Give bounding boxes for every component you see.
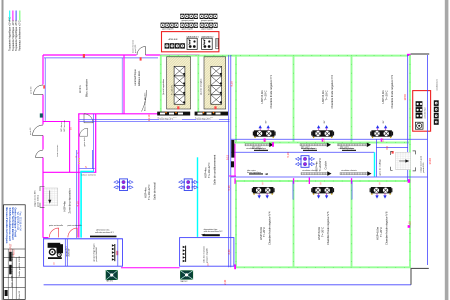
svg-text:Couloir: Couloir — [324, 161, 328, 169]
svg-text:T=-20°C: T=-20°C — [385, 90, 389, 100]
svg-text:HSP=6,0m: HSP=6,0m — [375, 226, 379, 240]
right ramp arrow — [399, 160, 409, 162]
svg-text:Evac eaux glacées: Evac eaux glacées — [144, 92, 146, 111]
svg-text:condenseurs: condenseurs — [436, 79, 438, 90]
room text N3 — [381, 74, 394, 108]
svg-text:porte sectionnelle: porte sectionnelle — [68, 224, 82, 227]
big wall magenta x78.8 — [78, 114, 80, 238]
left wall magenta — [42, 55, 44, 238]
pipe line y177 — [231, 176, 428, 178]
svg-text:Bloc sanitaire: Bloc sanitaire — [85, 79, 89, 97]
quai room A racks — [174, 66, 185, 104]
evaporators bottom row — [252, 187, 275, 199]
flow arrows row1 — [245, 143, 371, 151]
wall x124 magenta — [123, 55, 125, 114]
svg-text:2,40: 2,40 — [227, 249, 231, 255]
flow arrows row2 — [301, 169, 372, 176]
sanitary door arc — [84, 114, 93, 123]
teal pump 2 — [180, 271, 192, 283]
svg-text:porte 90: porte 90 — [29, 127, 32, 135]
bottom boundary blue — [44, 284, 411, 286]
atelier red box — [162, 32, 219, 52]
top wall magenta — [43, 54, 200, 56]
inner partition right cell — [117, 239, 119, 266]
svg-text:S: S — [320, 182, 322, 186]
legend line green — [19, 11, 21, 21]
svg-text:positifs 2x40kW: positifs 2x40kW — [95, 247, 98, 261]
right outer icon column — [434, 100, 439, 124]
quai room B racks — [211, 66, 222, 104]
red tick door1 — [43, 85, 45, 88]
svg-text:Chambre froide négative N°5: Chambre froide négative N°5 — [326, 211, 330, 245]
svg-text:3640: 3640 — [428, 158, 432, 165]
svg-text:rampe acces quai: rampe acces quai — [419, 156, 422, 173]
svg-text:Verifie par: Verifie par — [18, 267, 21, 277]
svg-text:HSP=6,0m: HSP=6,0m — [260, 90, 264, 104]
title block black mark — [5, 290, 8, 296]
icon strip row2 block3 — [200, 23, 218, 31]
legend line blue — [15, 11, 17, 21]
svg-text:Chambre froide négative N°3: Chambre froide négative N°3 — [390, 74, 394, 108]
equip bar A — [157, 112, 190, 120]
blue wall x229.5 — [229, 55, 231, 267]
svg-text:issue secours: issue secours — [57, 145, 59, 157]
svg-text:rampe acces 10%: rampe acces 10% — [34, 190, 37, 207]
corridor labels y150 — [252, 145, 356, 151]
svg-text:T=-20°C: T=-20°C — [325, 90, 329, 100]
svg-text:Quai d’expédition: Quai d’expédition — [162, 78, 165, 95]
cyan drop duct — [80, 172, 82, 237]
svg-text:Panneaux isothermes +2°C: Panneaux isothermes +2°C — [19, 20, 22, 51]
title block divider — [4, 248, 26, 250]
quai room A red mark — [177, 106, 179, 109]
door bars on x230 — [231, 140, 234, 158]
cyan vert x374.5 — [374, 152, 376, 176]
svg-text:T=-20°C: T=-20°C — [262, 227, 266, 237]
svg-text:TAR N°1: TAR N°1 — [106, 280, 113, 283]
svg-text:9,20: 9,20 — [229, 81, 233, 87]
wall x69.5 magenta — [69, 122, 71, 173]
red door arc 2 — [68, 228, 77, 237]
magenta tick N3 top — [381, 138, 382, 141]
svg-text:porte sectionnelle: porte sectionnelle — [49, 224, 63, 227]
left page margin bar — [2, 0, 4, 300]
wall x93.6 blue — [93, 114, 95, 172]
red tick topwall2 — [140, 57, 142, 60]
right ramp bracket — [391, 151, 416, 171]
icon strip row1 block2 — [200, 14, 218, 22]
magenta tick N2 top — [322, 138, 323, 141]
red tick right — [392, 151, 394, 154]
svg-text:quai 2,50: quai 2,50 — [135, 44, 137, 53]
svg-text:groupes positifs: groupes positifs — [182, 19, 195, 22]
svg-text:HSP=6,0m: HSP=6,0m — [321, 90, 325, 104]
cold room walls bottom — [235, 181, 411, 267]
machine room top wall — [43, 238, 123, 239]
svg-text:grpes negatifs: grpes negatifs — [162, 28, 173, 31]
top wall green ticks — [160, 55, 408, 57]
svg-text:liaison frigo -25°C: liaison frigo -25°C — [197, 118, 212, 120]
pipe labels — [159, 118, 182, 120]
svg-text:LAVEUSE N°2: LAVEUSE N°2 — [201, 35, 213, 38]
fan coil 1 — [114, 179, 133, 191]
svg-text:salle des machines N°2: salle des machines N°2 — [204, 231, 223, 233]
red tick topwall — [83, 54, 85, 58]
green wall x198.3 — [197, 55, 199, 113]
svg-text:Zone de préparation: Zone de préparation — [67, 188, 71, 214]
top door arc outward — [137, 47, 146, 56]
svg-text:T=+2/+4°C: T=+2/+4°C — [208, 84, 210, 95]
title block frame — [4, 205, 26, 300]
right blue wall x427.5 — [427, 55, 429, 265]
ramp arrow — [49, 191, 51, 204]
compressor unit — [48, 243, 71, 259]
teal pump 1 — [106, 270, 118, 282]
svg-text:Folio 03: Folio 03 — [19, 290, 21, 299]
svg-text:HSP=6,0m: HSP=6,0m — [317, 226, 321, 240]
heater bar left room — [112, 244, 118, 261]
svg-text:T=-20°C: T=-20°C — [321, 227, 325, 237]
icon strip row1 block1 — [180, 14, 198, 22]
corridor pipe y152 — [231, 151, 374, 153]
svg-text:T=+10/12°C: T=+10/12°C — [319, 158, 322, 172]
svg-text:gaine tech: gaine tech — [83, 137, 86, 146]
svg-text:S: S — [207, 262, 209, 266]
title block black bar 1 — [9, 252, 11, 261]
door arc left 2 — [33, 125, 44, 136]
equip bar B — [195, 112, 228, 120]
magenta stub — [43, 237, 49, 239]
fan coil 2 — [179, 179, 198, 191]
svg-text:5,10: 5,10 — [286, 152, 290, 158]
legend line cyan — [9, 11, 11, 21]
machine room 2 box — [180, 238, 234, 267]
fan coil corridor vertical — [296, 156, 315, 168]
svg-text:FRIGO: FRIGO — [14, 249, 16, 256]
svg-text:S: S — [53, 262, 55, 266]
big wall blue x76.7 — [76, 150, 78, 238]
svg-text:centrale froid: centrale froid — [424, 108, 427, 119]
svg-text:grpes negatifs: grpes negatifs — [182, 28, 193, 31]
pipe lines y119 y121 — [80, 119, 230, 121]
room text N5 — [317, 211, 330, 245]
svg-text:Chambre froide négative N°1: Chambre froide négative N°1 — [269, 74, 273, 108]
blue pipes into rooms — [293, 181, 352, 200]
svg-text:Quai de réception: Quai de réception — [200, 78, 203, 95]
machine room box — [44, 239, 123, 266]
title block row cells — [7, 249, 9, 299]
svg-text:T=+2/+4°C: T=+2/+4°C — [172, 84, 174, 95]
top wall magenta cap right — [407, 54, 411, 56]
dice icon 2 — [202, 38, 213, 49]
room text N6 — [375, 211, 388, 245]
svg-text:gaine de soufflage: gaine de soufflage — [379, 158, 381, 175]
svg-text:Plan frigorifique: Plan frigorifique — [11, 251, 14, 267]
atelier washer row — [165, 43, 185, 48]
svg-text:Chambre froide négative N°2: Chambre froide négative N°2 — [330, 74, 334, 108]
dice icon 1 — [187, 38, 197, 49]
black arrow mid — [201, 234, 205, 236]
svg-text:T=-20°C: T=-20°C — [379, 227, 383, 237]
wall y113.8 magenta — [78, 113, 160, 115]
svg-text:H=3m: H=3m — [78, 85, 82, 93]
svg-text:salle des machines N°1: salle des machines N°1 — [95, 232, 114, 234]
svg-text:HSP=6,0m: HSP=6,0m — [259, 226, 263, 240]
svg-text:salle des machines: salle des machines — [203, 246, 205, 263]
quai room A hatched — [167, 57, 191, 109]
blue vert x376.4 — [375, 139, 377, 176]
quai room B hatched — [204, 57, 226, 109]
striped bar in red box — [216, 38, 219, 48]
right blue wall x407.7 — [407, 55, 409, 181]
svg-text:2,40: 2,40 — [223, 279, 227, 285]
svg-text:Date: 2009: Date: 2009 — [11, 275, 14, 286]
svg-text:1150: 1150 — [403, 94, 407, 101]
room text N4 — [259, 211, 272, 245]
blue pipe y147.5 — [376, 147, 407, 149]
icon strip row2 block2 — [180, 23, 198, 31]
left wall inner blue — [44, 58, 46, 121]
svg-text:pente 1,50 m: pente 1,50 m — [36, 195, 39, 207]
yellow dashes — [78, 158, 80, 164]
svg-text:tableaux élect.: tableaux élect. — [138, 70, 141, 86]
green wall x160.8 — [160, 55, 162, 113]
quai room B red mark — [214, 106, 216, 109]
magenta wall x235 mid — [234, 144, 236, 176]
couloir text — [316, 158, 328, 172]
svg-text:TAR N°2: TAR N°2 — [180, 280, 187, 283]
svg-text:T=-20°C: T=-20°C — [264, 90, 268, 100]
right ramp grid — [396, 152, 411, 170]
svg-text:HSP=4m: HSP=4m — [62, 201, 66, 211]
svg-text:4,10: 4,10 — [75, 201, 79, 207]
wall y172 magenta — [43, 171, 96, 173]
right red box — [413, 91, 431, 132]
svg-text:Tuyauterie frigorifique -25°C: Tuyauterie frigorifique -25°C — [15, 20, 18, 51]
svg-text:Salle de travail: Salle de travail — [153, 182, 157, 200]
door arc left 1 — [34, 85, 44, 95]
svg-text:HSP=4m: HSP=4m — [204, 168, 208, 178]
svg-text:LAVEUSE N°1: LAVEUSE N°1 — [187, 35, 199, 38]
right page margin bar — [445, 0, 449, 300]
svg-text:2x40 kW: 2x40 kW — [68, 249, 70, 257]
top wall inner blue line — [44, 57, 158, 59]
right red box fan icon — [415, 122, 423, 129]
bloc sanitaire inner blue face — [121, 58, 123, 114]
magenta junction ticks — [234, 138, 410, 269]
svg-text:6,0: 6,0 — [385, 145, 389, 149]
wall x95.5 magenta — [95, 114, 97, 173]
svg-text:S: S — [85, 165, 87, 169]
leader curve — [142, 90, 147, 112]
svg-text:porte 90: porte 90 — [30, 86, 33, 94]
right red box icon stack — [416, 101, 427, 118]
svg-text:circulation chariots: circulation chariots — [302, 169, 318, 172]
svg-text:Chambre froide négative N°6: Chambre froide négative N°6 — [384, 211, 388, 245]
dark step corner — [411, 268, 429, 284]
top wall green panel — [160, 55, 408, 57]
red door arc 1 — [49, 228, 58, 237]
svg-text:T=+10/+12°C: T=+10/+12°C — [147, 184, 151, 200]
svg-text:liaison frigo +4°C: liaison frigo +4°C — [160, 118, 174, 120]
svg-text:circulation chariots: circulation chariots — [341, 169, 357, 172]
svg-text:HSP=6,0m: HSP=6,0m — [381, 90, 385, 104]
svg-text:Local technique: Local technique — [134, 69, 137, 86]
svg-text:9,15: 9,15 — [226, 154, 230, 160]
svg-text:Fax: 021.55.44.34: Fax: 021.55.44.34 — [18, 212, 21, 232]
ramp dashed bracket — [40, 187, 45, 208]
teal symbol — [40, 113, 43, 117]
room text N1 — [260, 74, 273, 108]
svg-text:Chambre froide négative N°4: Chambre froide négative N°4 — [268, 211, 272, 245]
top dock gray line — [411, 53, 430, 55]
svg-text:Ech: 1/100: Ech: 1/100 — [19, 256, 21, 267]
svg-text:HSP=4m: HSP=4m — [144, 188, 148, 198]
svg-text:S: S — [379, 182, 381, 186]
ramp grid — [44, 188, 58, 206]
heater bar room2 — [183, 246, 186, 263]
magenta wall y176 — [229, 175, 236, 177]
room text N2 — [321, 74, 334, 108]
svg-text:grpes negatifs: grpes negatifs — [201, 28, 212, 31]
corridor blue pipes — [80, 150, 95, 169]
legend line magenta — [12, 11, 14, 21]
salle travail text — [144, 182, 157, 200]
svg-text:groupes negatifs: groupes negatifs — [205, 248, 208, 263]
svg-text:extract. sanitaires: extract. sanitaires — [81, 173, 96, 176]
svg-text:T=+10/+12°C: T=+10/+12°C — [207, 162, 211, 178]
wall y121.5 magenta — [43, 121, 70, 123]
svg-text:pente 10%: pente 10% — [422, 162, 425, 172]
magenta link y267.5 — [121, 267, 180, 269]
machine room divider — [65, 239, 67, 266]
svg-text:5,10: 5,10 — [227, 185, 231, 191]
salle conditionnement text — [204, 155, 217, 185]
corridor cyan duct — [80, 171, 94, 173]
pipe line y139 — [231, 138, 428, 140]
svg-text:S: S — [262, 182, 264, 186]
svg-text:Salle de conditionnement: Salle de conditionnement — [213, 155, 217, 185]
svg-text:ATELIER: ATELIER — [169, 38, 178, 41]
svg-text:14,10: 14,10 — [147, 114, 151, 121]
svg-text:groupes positifs: groupes positifs — [201, 19, 214, 22]
svg-text:Dessine par: Dessine par — [11, 265, 14, 277]
cold room walls top — [235, 55, 410, 267]
sanitary door arc 2 — [80, 128, 88, 136]
door arc left 3 — [36, 150, 44, 158]
evaporators top row — [253, 120, 276, 138]
cyan vert x197.5 — [197, 157, 199, 237]
title block black bar 2 — [9, 265, 11, 275]
icon strip row2 block1 — [161, 23, 179, 31]
svg-text:WC hommes: WC hommes — [64, 120, 66, 132]
